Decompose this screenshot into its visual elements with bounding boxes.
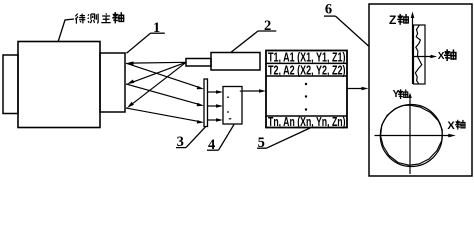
bottom plot Y axis [408,93,412,174]
top plot Z axis [411,12,415,85]
svg-text:Tn, An (Xn, Yn, Zn): Tn, An (Xn, Yn, Zn) [268,114,346,129]
roundness circle [380,105,442,167]
straightness profile frame [414,25,426,84]
bottom plot Y轴 label [393,89,408,100]
laser body (element 2) [211,53,260,71]
table row line 2 [266,75,347,77]
待 [75,14,85,24]
svg-text:6: 6 [325,2,332,18]
label 4 [207,125,234,153]
label 5 [257,128,310,151]
roundness measured trace [381,105,443,165]
beam P2->Q2 [126,84,204,106]
轴 [113,13,124,23]
svg-text:X: X [438,51,445,62]
lens centerline specks [227,91,241,120]
svg-text:X: X [447,120,455,132]
top plot Z轴 label [389,13,408,27]
label 待测主轴 leader [58,19,74,42]
table ellipsis dots [305,83,307,111]
beam laser->P2 [127,62,186,84]
beam laser->P1 [126,61,186,65]
label 1 [126,20,164,54]
label 待测主轴 text (hand-drawn glyphs) [75,13,123,24]
beam P3->Q3 [126,108,204,124]
bottom plot X轴 label [447,120,465,132]
straightness wavy trace [415,25,421,83]
主 [101,13,110,22]
table row line 1 [266,62,347,64]
laser head (element 2) nose [186,59,211,67]
label 3 [176,127,206,150]
svg-text:T2, A2 (X2, Y2, Z2): T2, A2 (X2, Y2, Z2) [268,63,346,78]
label 2 [231,18,276,53]
arrow bar->lens #3 [208,118,223,122]
arrow bar->lens #1 [208,90,223,94]
测 [88,14,98,24]
beam P1->Q1 [126,63,204,89]
spindle shaft extension [100,53,125,112]
top plot X axis [413,55,438,59]
arrow lens->table [242,89,266,93]
bottom plot X axis [375,134,456,138]
lens block (element 4) [223,87,242,125]
arrow table->display [347,87,369,91]
data table frame [266,51,347,128]
receiver bar (element 3) [204,79,208,127]
spindle main body [18,42,100,128]
table row line 3 [266,115,347,117]
svg-text:Z: Z [389,13,396,27]
label 6 [324,2,369,47]
top plot X轴 label [438,50,456,62]
display box (element 6) [369,4,472,176]
beam laser->P3 [127,62,186,108]
arrow bar->lens #2 [208,104,223,108]
spindle rear cap [3,55,18,114]
